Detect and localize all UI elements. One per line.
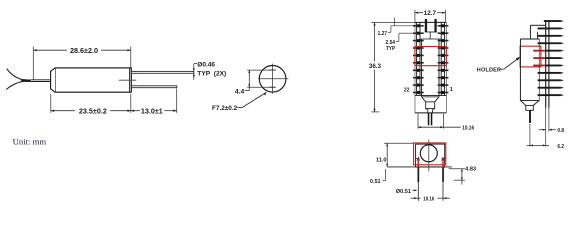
svg-text:23.5±0.2: 23.5±0.2 <box>79 106 107 115</box>
dimension lead diameter Ø0.46 TYP (2X) <box>193 61 226 80</box>
pin spine side view <box>546 20 549 107</box>
body cylinder <box>51 68 132 92</box>
dimension 11.0 <box>376 143 414 167</box>
tube bottom taper front <box>422 97 439 113</box>
red highlighted pin stubs <box>533 50 546 67</box>
body centerline tick <box>119 79 136 81</box>
glass tube front <box>422 39 439 97</box>
svg-text:10.16: 10.16 <box>462 125 474 131</box>
upper right lead <box>131 71 194 73</box>
svg-text:12.7: 12.7 <box>424 10 437 17</box>
svg-text:4.83: 4.83 <box>465 166 476 172</box>
pin number 22 <box>404 87 409 93</box>
flexible wire lower strand <box>6 81 24 89</box>
svg-text:F7.2±0.2: F7.2±0.2 <box>212 105 238 112</box>
wire crimp junction <box>21 79 31 82</box>
end view horizontal centerline <box>258 78 288 80</box>
holder body outline side <box>520 25 545 100</box>
svg-text:Ø0.46: Ø0.46 <box>197 61 215 68</box>
dimension 23.5±0.2 <box>51 94 131 115</box>
pin extension line left <box>418 167 420 201</box>
svg-text:0.8: 0.8 <box>557 128 564 134</box>
lower right lead <box>131 86 177 88</box>
dimension 2.54 TYP <box>386 33 415 52</box>
flexible wire upper strand <box>7 69 24 81</box>
lead position tick lower <box>269 86 276 88</box>
dimension 36.3 <box>369 22 415 112</box>
left axial lead <box>31 80 52 82</box>
dimension 1.27 <box>378 18 415 37</box>
dimension 28.6±2.0 <box>33 46 131 80</box>
right pin rail front <box>438 22 449 95</box>
dimension 0.8 <box>539 108 564 134</box>
left pin rail front <box>413 22 424 95</box>
svg-text:0.51: 0.51 <box>370 179 381 185</box>
lead position tick upper <box>269 69 276 71</box>
vertical centerline bottom view <box>428 140 430 172</box>
label F7.2±0.2 body diameter <box>212 92 267 112</box>
svg-text:13.0±1: 13.0±1 <box>141 106 163 115</box>
pin center tick left <box>415 157 419 159</box>
holder bottom taper side <box>520 100 539 110</box>
bottom lead wires front <box>428 113 433 126</box>
pin comb side view <box>538 20 564 96</box>
dimension 4.83 <box>449 166 476 184</box>
top terminal prong left <box>425 19 427 32</box>
svg-text:11.0: 11.0 <box>376 157 386 163</box>
svg-text:1: 1 <box>450 87 453 93</box>
svg-text:1.27: 1.27 <box>378 31 387 37</box>
pin center tick right <box>441 157 445 159</box>
dimension 4.4 lead spacing <box>235 70 273 95</box>
red pin arrow left <box>417 156 420 167</box>
svg-text:2.54: 2.54 <box>386 40 396 46</box>
svg-text:TYP (2X): TYP (2X) <box>197 70 226 77</box>
dimension 10.16 front <box>418 114 474 132</box>
bottom plane extension line <box>387 166 452 168</box>
red pin arrow right <box>441 156 444 167</box>
note Unit: mm <box>13 137 47 147</box>
holder body outline front <box>415 22 447 113</box>
end view vertical centerline <box>272 64 274 94</box>
svg-text:TYP: TYP <box>386 46 396 52</box>
pin extension line right <box>442 167 444 201</box>
red highlight box bottom view <box>414 143 446 165</box>
label Ø0.51 pin diameter <box>396 189 418 195</box>
dimension 12.7 <box>415 10 446 22</box>
switch seal area front <box>420 32 442 39</box>
housing outline bottom view <box>416 144 445 167</box>
glass tube circle bottom view <box>420 145 437 162</box>
svg-text:Ø0.51: Ø0.51 <box>396 189 411 195</box>
svg-text:36.3: 36.3 <box>369 63 382 70</box>
red highlight box side view <box>520 46 541 67</box>
dimension 13.0±1 <box>131 89 177 116</box>
svg-text:10.16: 10.16 <box>423 197 434 203</box>
label HOLDER with leader <box>477 57 521 74</box>
svg-text:28.6±2.0: 28.6±2.0 <box>70 46 98 55</box>
svg-text:HOLDER: HOLDER <box>477 67 501 73</box>
red highlight box front view <box>415 47 446 66</box>
pin number 1 <box>450 87 453 93</box>
svg-text:4.4: 4.4 <box>235 88 245 95</box>
svg-text:Unit: mm: Unit: mm <box>13 137 47 147</box>
top terminal prong right <box>434 19 436 32</box>
end view circle Ø7.2 <box>259 66 286 93</box>
dimension 0.51 <box>370 169 386 185</box>
dimension 6.2 <box>527 124 565 150</box>
svg-text:6.2: 6.2 <box>557 144 564 150</box>
dimension 10.16 bottom <box>411 197 450 203</box>
bottom lead side <box>529 110 531 123</box>
svg-text:22: 22 <box>404 87 409 93</box>
